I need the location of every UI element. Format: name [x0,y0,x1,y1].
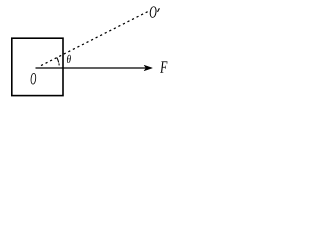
angle arc theta [57,58,59,66]
dashed line O to O' [41,11,149,66]
label theta [67,55,71,63]
label O [31,73,37,84]
force arrow line F [36,67,148,69]
label O' [150,6,157,17]
arrowhead of F [144,65,152,71]
square block [12,38,63,95]
prime of O' [158,8,160,12]
label F [160,61,167,72]
